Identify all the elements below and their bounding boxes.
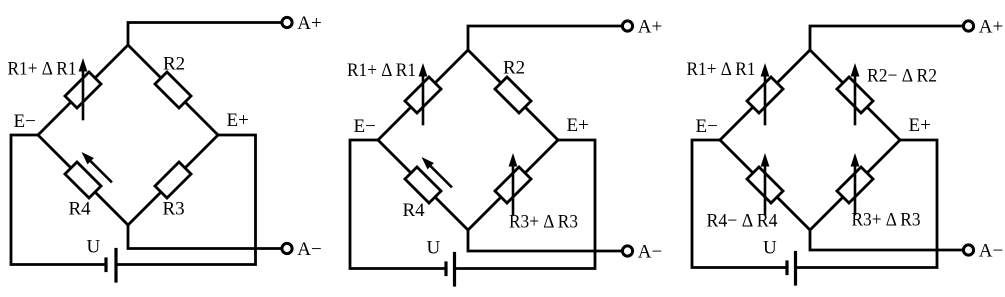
terminal A+ — [282, 17, 292, 27]
svg-text:R4: R4 — [403, 200, 426, 221]
R4 strain arrow (diagonal, beside body) — [431, 166, 451, 186]
wire arm bottom node to E+ (R3 arm) — [468, 140, 558, 230]
svg-text:E+: E+ — [227, 110, 249, 131]
battery U negative plate — [444, 263, 447, 275]
terminal A+ — [622, 21, 632, 31]
resistor R3 (R3+ &#916; R3) — [495, 167, 531, 203]
resistor R3 (R3+ &#916; R3) — [837, 167, 873, 203]
R1 strain arrow (vertical, through body) — [764, 76, 767, 124]
wire top node to terminal A+ — [810, 26, 962, 50]
wire E- node to battery negative — [350, 140, 446, 269]
svg-text:U: U — [427, 238, 441, 259]
wire arm E- to bottom node (R4 arm) — [378, 140, 468, 230]
wire arm top node to E+ (R2 arm) — [468, 50, 558, 140]
resistor R2 (R2) — [155, 72, 191, 108]
wire arm bottom node to E+ (R3 arm) — [810, 140, 900, 230]
resistor R1 (R1+ &#916; R1) — [747, 77, 783, 113]
resistor R1 (R1+ &#916; R1) — [405, 77, 441, 113]
battery U negative plate — [104, 259, 107, 271]
R1 strain arrow (vertical, through body) — [422, 76, 425, 124]
R3 strain arrow (vertical, through body) — [854, 166, 857, 214]
battery U negative plate — [785, 262, 788, 274]
svg-text:R1+ Δ R1: R1+ Δ R1 — [8, 59, 77, 80]
resistor R2 (R2&#8722; &#916; R2) — [837, 77, 873, 113]
resistor R4 (R4) — [65, 162, 101, 198]
wire bottom node to terminal A- — [468, 230, 621, 251]
resistor R1 (R1+ &#916; R1) — [65, 72, 101, 108]
svg-text:R4: R4 — [69, 199, 92, 220]
resistor R2 (R2) — [495, 77, 531, 113]
svg-text:E−: E− — [14, 111, 36, 132]
terminal A- — [622, 246, 632, 256]
svg-text:E+: E+ — [567, 115, 589, 136]
wire arm top node to E+ (R2 arm) — [128, 45, 218, 135]
battery U positive plate — [794, 253, 797, 285]
resistor R4 (R4) — [405, 167, 441, 203]
wire arm E- to top node (R1 arm) — [38, 45, 128, 135]
wire battery positive to E+ node — [796, 140, 938, 268]
wire battery positive to E+ node — [116, 135, 256, 265]
svg-text:A−: A− — [297, 239, 321, 260]
wire top node to terminal A+ — [468, 26, 621, 50]
svg-text:R1+ Δ R1: R1+ Δ R1 — [687, 59, 756, 80]
svg-text:R3: R3 — [163, 199, 185, 220]
R4 strain arrow (diagonal, beside body) — [91, 161, 111, 181]
svg-text:U: U — [87, 237, 101, 258]
R2 strain arrow (vertical, through body) — [854, 76, 857, 124]
svg-text:R4− Δ R4: R4− Δ R4 — [707, 211, 778, 232]
terminal A- — [963, 245, 973, 255]
svg-text:U: U — [763, 238, 777, 259]
R4 strain arrow (vertical, through body) — [764, 166, 767, 214]
wire top node to terminal A+ — [128, 23, 281, 46]
terminal A+ — [963, 21, 973, 31]
svg-text:E+: E+ — [909, 115, 931, 136]
battery U positive plate — [453, 254, 456, 286]
wire arm E- to top node (R1 arm) — [378, 50, 468, 140]
wire arm E- to top node (R1 arm) — [720, 50, 810, 140]
resistor R4 (R4&#8722; &#916; R4) — [747, 167, 783, 203]
wire bottom node to terminal A- — [810, 230, 962, 250]
R1 strain arrow (vertical, through body) — [82, 71, 85, 119]
svg-text:R2: R2 — [163, 54, 185, 75]
svg-text:E−: E− — [354, 116, 376, 137]
svg-text:E−: E− — [696, 116, 718, 137]
svg-text:A+: A+ — [979, 17, 1003, 38]
svg-text:A−: A− — [638, 242, 662, 263]
svg-text:R2: R2 — [503, 58, 525, 79]
wire bottom node to terminal A- — [128, 225, 281, 249]
battery U positive plate — [114, 250, 117, 282]
wire arm E- to bottom node (R4 arm) — [38, 135, 128, 225]
svg-text:R3+ Δ R3: R3+ Δ R3 — [509, 212, 578, 233]
wire E- node to battery negative — [11, 135, 106, 265]
R3 strain arrow (vertical, through body) — [512, 166, 515, 214]
wire arm E- to bottom node (R4 arm) — [720, 140, 810, 230]
svg-text:A+: A+ — [638, 17, 662, 38]
resistor R3 (R3) — [155, 162, 191, 198]
terminal A- — [282, 243, 292, 253]
wire arm top node to E+ (R2 arm) — [810, 50, 900, 140]
svg-text:A+: A+ — [297, 13, 321, 34]
svg-text:R1+ Δ R1: R1+ Δ R1 — [347, 60, 416, 81]
svg-text:A−: A− — [979, 241, 1003, 262]
wire arm bottom node to E+ (R3 arm) — [128, 135, 218, 225]
wire battery positive to E+ node — [455, 140, 596, 269]
svg-text:R2− Δ R2: R2− Δ R2 — [867, 65, 937, 86]
svg-text:R3+ Δ R3: R3+ Δ R3 — [852, 210, 921, 231]
wire E- node to battery negative — [692, 140, 787, 268]
